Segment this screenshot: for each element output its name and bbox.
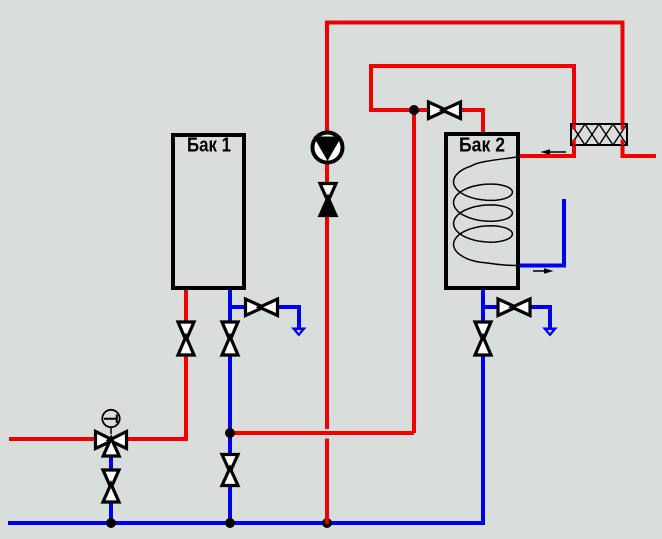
wire: supply tee drop <box>412 108 416 433</box>
valve on mixing valve cold drop <box>103 470 119 502</box>
wire: pump line below break to return main <box>325 439 329 524</box>
wire: tank 2 to heat exchanger bottom-left port <box>519 140 574 156</box>
wire: tank 2 drain branch <box>483 307 550 330</box>
node: pump line on return main <box>322 518 332 528</box>
three-way thermostatic mixing valve <box>96 432 127 457</box>
wire: heat exchanger bottom-right port to right edge <box>623 140 657 156</box>
wire: outer supply loop (pump riser, top run, right drop to heat exchanger) <box>327 23 623 134</box>
flow arrow, tank 2 cold inlet (points right) <box>533 268 554 273</box>
svg-text:Бак 2: Бак 2 <box>459 134 505 157</box>
valve on tank 2 cold drop <box>475 322 491 355</box>
wire: supply run to tank 2 top <box>369 110 483 133</box>
tank Бак 1 body <box>173 135 244 288</box>
drain outlet arrow, tank 1 branch <box>291 328 307 337</box>
svg-text:Бак 1: Бак 1 <box>187 134 231 157</box>
wire: inner supply loop (tee riser to heat exchanger left port) <box>371 66 574 127</box>
wire: pump outlet segment <box>325 162 329 185</box>
wire: return main along bottom, riser to tank 2 bottom <box>8 289 483 523</box>
pump P1 <box>313 133 343 163</box>
heat exchanger port stubs <box>572 124 624 145</box>
wire: hot supply stub from left edge <box>9 437 96 441</box>
flow arrow, tank 2 to heat exchanger (points left) <box>541 149 567 154</box>
drain outlet arrow, tank 2 branch <box>542 328 558 337</box>
wire: tank 2 cold inlet riser <box>519 199 564 266</box>
tank Бак 2 internal coil <box>454 157 518 266</box>
node: crossover to cold riser junction <box>225 428 235 438</box>
node: supply tee junction <box>409 105 419 115</box>
wire: tank 1 drain branch <box>230 307 299 330</box>
tank Бак 2 body <box>446 134 518 288</box>
temperature sensor head on mixing valve <box>102 410 119 434</box>
valve on tank 1 drain branch <box>246 299 278 316</box>
check valve on pump line <box>320 184 336 216</box>
valve on tank 1 cold drop <box>222 322 238 355</box>
wire: crossover run to return riser <box>230 431 414 435</box>
valve on tank 1 hot drop <box>178 322 194 355</box>
wire: tank 1 hot drop to mixing valve <box>126 289 186 439</box>
wire: pump line long drop (breaks at crossover) <box>325 214 329 429</box>
node: mixing valve drop on return main <box>106 518 116 528</box>
valve on tank 2 supply run <box>429 102 461 119</box>
node: tank 1 cold drop on return main <box>225 518 235 528</box>
valve on tank 1 cold drop lower section <box>222 455 238 486</box>
valve on tank 2 drain branch <box>498 299 530 316</box>
wire: tank 1 cold drop <box>228 289 232 523</box>
heat exchanger HX1 body <box>571 124 627 145</box>
wire: mixing valve cold drop <box>109 450 113 523</box>
